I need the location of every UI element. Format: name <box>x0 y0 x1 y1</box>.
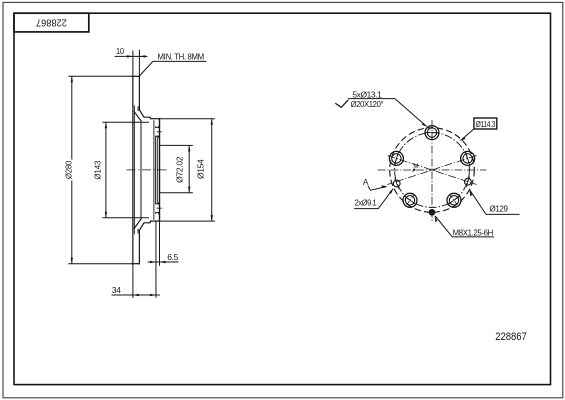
svg-text:Ø154: Ø154 <box>196 159 206 179</box>
bolt hole upper edges <box>156 126 158 128</box>
part number bottom right <box>495 331 527 343</box>
hub inner line 1 <box>153 121 155 220</box>
disc OD top edge <box>132 75 140 77</box>
disc inboard face upper <box>138 76 140 110</box>
label M8X1.25-6H <box>453 227 494 237</box>
svg-text:6.5: 6.5 <box>167 252 178 262</box>
bolt hole lower edges <box>156 203 158 205</box>
svg-text:Ø114.3: Ø114.3 <box>476 119 496 129</box>
M8 threaded hole <box>429 209 435 215</box>
hub inner line 2 segments <box>155 126 157 129</box>
svg-text:Ø72.02: Ø72.02 <box>175 156 185 183</box>
svg-text:228867: 228867 <box>36 17 67 29</box>
svg-text:M8X1.25-6H: M8X1.25-6H <box>453 227 494 237</box>
dimension 34 <box>112 264 161 298</box>
svg-text:228867: 228867 <box>495 331 527 343</box>
svg-text:Ø129: Ø129 <box>490 204 509 214</box>
disc OD bottom edge <box>132 263 140 265</box>
bolt hole lower-left <box>403 193 417 207</box>
bolt hole upper countersink <box>158 125 159 127</box>
hat cone outer upper <box>139 110 150 119</box>
svg-text:5xØ13.1: 5xØ13.1 <box>352 89 382 99</box>
dimension D143 <box>102 122 149 218</box>
bolt hole upper-right <box>461 151 475 165</box>
title box top-left <box>14 13 89 32</box>
label D114.3 boxed <box>474 118 497 129</box>
dimension D280 <box>68 76 132 263</box>
radial tick hole 234 <box>406 195 414 206</box>
flange top edge <box>151 118 160 120</box>
fillet stub lower <box>137 230 139 234</box>
hat cone inner upper <box>134 112 141 121</box>
radial 18-198 <box>388 156 477 185</box>
pin hole left 9.1 <box>393 178 400 188</box>
dimension 6.5 <box>148 221 179 298</box>
bolt hole lower countersink <box>158 202 159 204</box>
svg-text:34: 34 <box>112 285 121 295</box>
vertical centerline <box>431 120 433 223</box>
balance mark M <box>413 163 418 170</box>
centerline of section <box>127 132 167 208</box>
bolt hole axis tick upper <box>157 131 164 133</box>
flange bottom edge <box>151 220 160 222</box>
radial 162-342 <box>388 156 477 185</box>
svg-text:A: A <box>363 177 369 187</box>
label 2xD9.1 <box>355 197 377 207</box>
svg-text:10: 10 <box>116 46 124 56</box>
bolt hole upper-left <box>389 151 403 165</box>
svg-text:2xØ9.1: 2xØ9.1 <box>355 197 377 207</box>
svg-text:Ø280: Ø280 <box>63 160 73 179</box>
hat cone outer lower <box>139 221 150 230</box>
hub inner line 3 <box>156 136 158 204</box>
disc inboard face lower <box>138 230 140 264</box>
svg-text:Ø20X120°: Ø20X120° <box>351 99 384 109</box>
radial tick hole 306 <box>450 195 458 206</box>
circle D129 dashed <box>390 128 475 213</box>
bolt hole top <box>425 126 439 140</box>
pin hole right 9.1 <box>465 177 472 187</box>
surface mark check <box>335 100 348 108</box>
dimension D154 <box>160 119 215 221</box>
hat cone inner lower <box>134 219 141 228</box>
bolt hole axis tick lower <box>157 207 164 209</box>
hub mounting face <box>159 119 161 221</box>
svg-text:Ø143: Ø143 <box>93 160 103 179</box>
hat outboard recessed face <box>133 106 135 234</box>
svg-text:MIN. TH. 8MM: MIN. TH. 8MM <box>158 51 205 61</box>
bolt hole lower-right <box>447 193 461 207</box>
horizontal centerline <box>378 169 487 171</box>
dimension 10 <box>115 50 148 77</box>
label D129 <box>490 204 509 214</box>
bolt circle D114.3 <box>395 133 470 208</box>
leader MIN. TH. 8MM <box>139 61 206 76</box>
label 5xD13.1 / D20X120 <box>351 89 384 109</box>
hat cylinder wall <box>140 121 142 219</box>
dimension D72.02 <box>160 145 193 192</box>
disc outboard face <box>132 76 134 263</box>
datum arrow A <box>363 177 369 187</box>
fillet stub upper <box>137 107 139 111</box>
